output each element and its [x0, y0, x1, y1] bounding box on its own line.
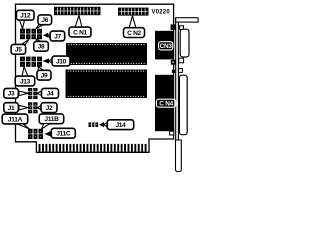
connector CN4 shell	[179, 75, 187, 135]
component below CN4	[170, 131, 174, 135]
jumper block J1/J2	[28, 102, 38, 113]
label J7	[50, 31, 64, 41]
label J4	[42, 88, 59, 98]
svg-text:J11B: J11B	[44, 116, 59, 123]
label J11B	[39, 114, 64, 124]
svg-text:CN3: CN3	[160, 43, 173, 50]
connector CN4	[155, 75, 174, 131]
svg-text:J10: J10	[56, 58, 67, 65]
label CN4	[156, 99, 175, 107]
wire J9 leader	[38, 67, 44, 71]
wire J10 arrow	[43, 58, 50, 63]
label J1	[4, 103, 18, 113]
label J2	[41, 103, 57, 113]
wire J10 funnel	[49, 59, 53, 64]
connector shell tab top	[180, 26, 184, 30]
wire J2 leader	[38, 105, 42, 110]
svg-text:J12: J12	[20, 13, 31, 20]
wire J7 arrow	[43, 33, 48, 38]
wire J6 leader	[36, 25, 44, 29]
wire CN2 leader	[129, 16, 136, 28]
wire CN1 leader	[75, 15, 82, 27]
label J11A	[2, 114, 28, 124]
label CN1	[69, 27, 91, 37]
IC U2	[66, 70, 148, 99]
wire J5 leader	[22, 39, 30, 44]
label J14	[107, 120, 134, 130]
wire J3 leader	[19, 91, 28, 96]
component on edge below CN3	[171, 60, 176, 65]
label J8	[34, 41, 49, 51]
wire J11C arrow	[45, 131, 51, 136]
connector CN3 shell	[180, 29, 189, 57]
svg-text:J11A: J11A	[8, 116, 23, 123]
label J5	[11, 44, 26, 54]
card edge connector fingers	[39, 144, 147, 152]
connector CN2 header	[118, 8, 149, 16]
svg-text:C N2: C N2	[127, 30, 141, 37]
wire J11A leader	[17, 124, 30, 129]
board outline	[16, 4, 174, 152]
wire J8 leader	[36, 39, 42, 42]
wire J4 leader	[38, 91, 42, 96]
mounting bracket vertical strip	[176, 19, 179, 141]
svg-text:J1: J1	[8, 105, 15, 112]
mounting bracket top arm	[176, 18, 198, 22]
small component on edge	[172, 70, 175, 73]
small tab right of bracket	[179, 69, 183, 73]
connector CN3	[155, 31, 174, 60]
wire J11B leader	[42, 124, 51, 130]
jumper block J11C	[28, 129, 43, 139]
svg-text:J11C: J11C	[56, 131, 71, 138]
label J12	[16, 10, 34, 20]
label J3	[4, 88, 18, 98]
label CN3	[159, 42, 173, 50]
label J6	[38, 15, 52, 25]
svg-text:C N1: C N1	[73, 29, 87, 36]
label J13	[15, 76, 35, 86]
jumper block J3/J4	[28, 88, 38, 99]
svg-text:J4: J4	[47, 91, 54, 98]
svg-text:J14: J14	[115, 122, 126, 129]
jumper block J12/J6/J7/J8/J5	[20, 29, 42, 40]
wire J14 funnel	[104, 122, 109, 127]
wire J13 leader	[22, 67, 28, 77]
svg-text:J13: J13	[20, 78, 31, 85]
connector shell tab bottom	[179, 58, 184, 63]
svg-text:C N4: C N4	[159, 100, 173, 107]
wire J14 arrow	[99, 122, 104, 127]
wire J11C funnel	[50, 132, 53, 137]
svg-text:J2: J2	[46, 105, 53, 112]
wire J1 leader	[19, 105, 28, 110]
svg-text:V0220: V0220	[152, 10, 171, 16]
mounting bracket lower flange	[176, 140, 182, 172]
svg-text:J7: J7	[54, 33, 61, 40]
wire J12 leader	[20, 20, 25, 29]
svg-text:J8: J8	[38, 44, 45, 51]
svg-text:J6: J6	[41, 17, 48, 24]
label J9	[37, 70, 51, 80]
connector CN1 header	[54, 7, 101, 15]
wire J7 funnel	[48, 34, 51, 39]
IC U1	[66, 43, 147, 65]
svg-text:J5: J5	[15, 47, 22, 54]
svg-text:J3: J3	[8, 91, 15, 98]
label J10	[52, 56, 70, 66]
jumper block J14	[89, 122, 99, 127]
label J11C	[51, 128, 75, 138]
jumper block J13/J9/J10	[20, 57, 42, 67]
bracket screw tab	[171, 24, 177, 30]
label CN2	[124, 28, 145, 38]
svg-text:J9: J9	[41, 73, 48, 80]
